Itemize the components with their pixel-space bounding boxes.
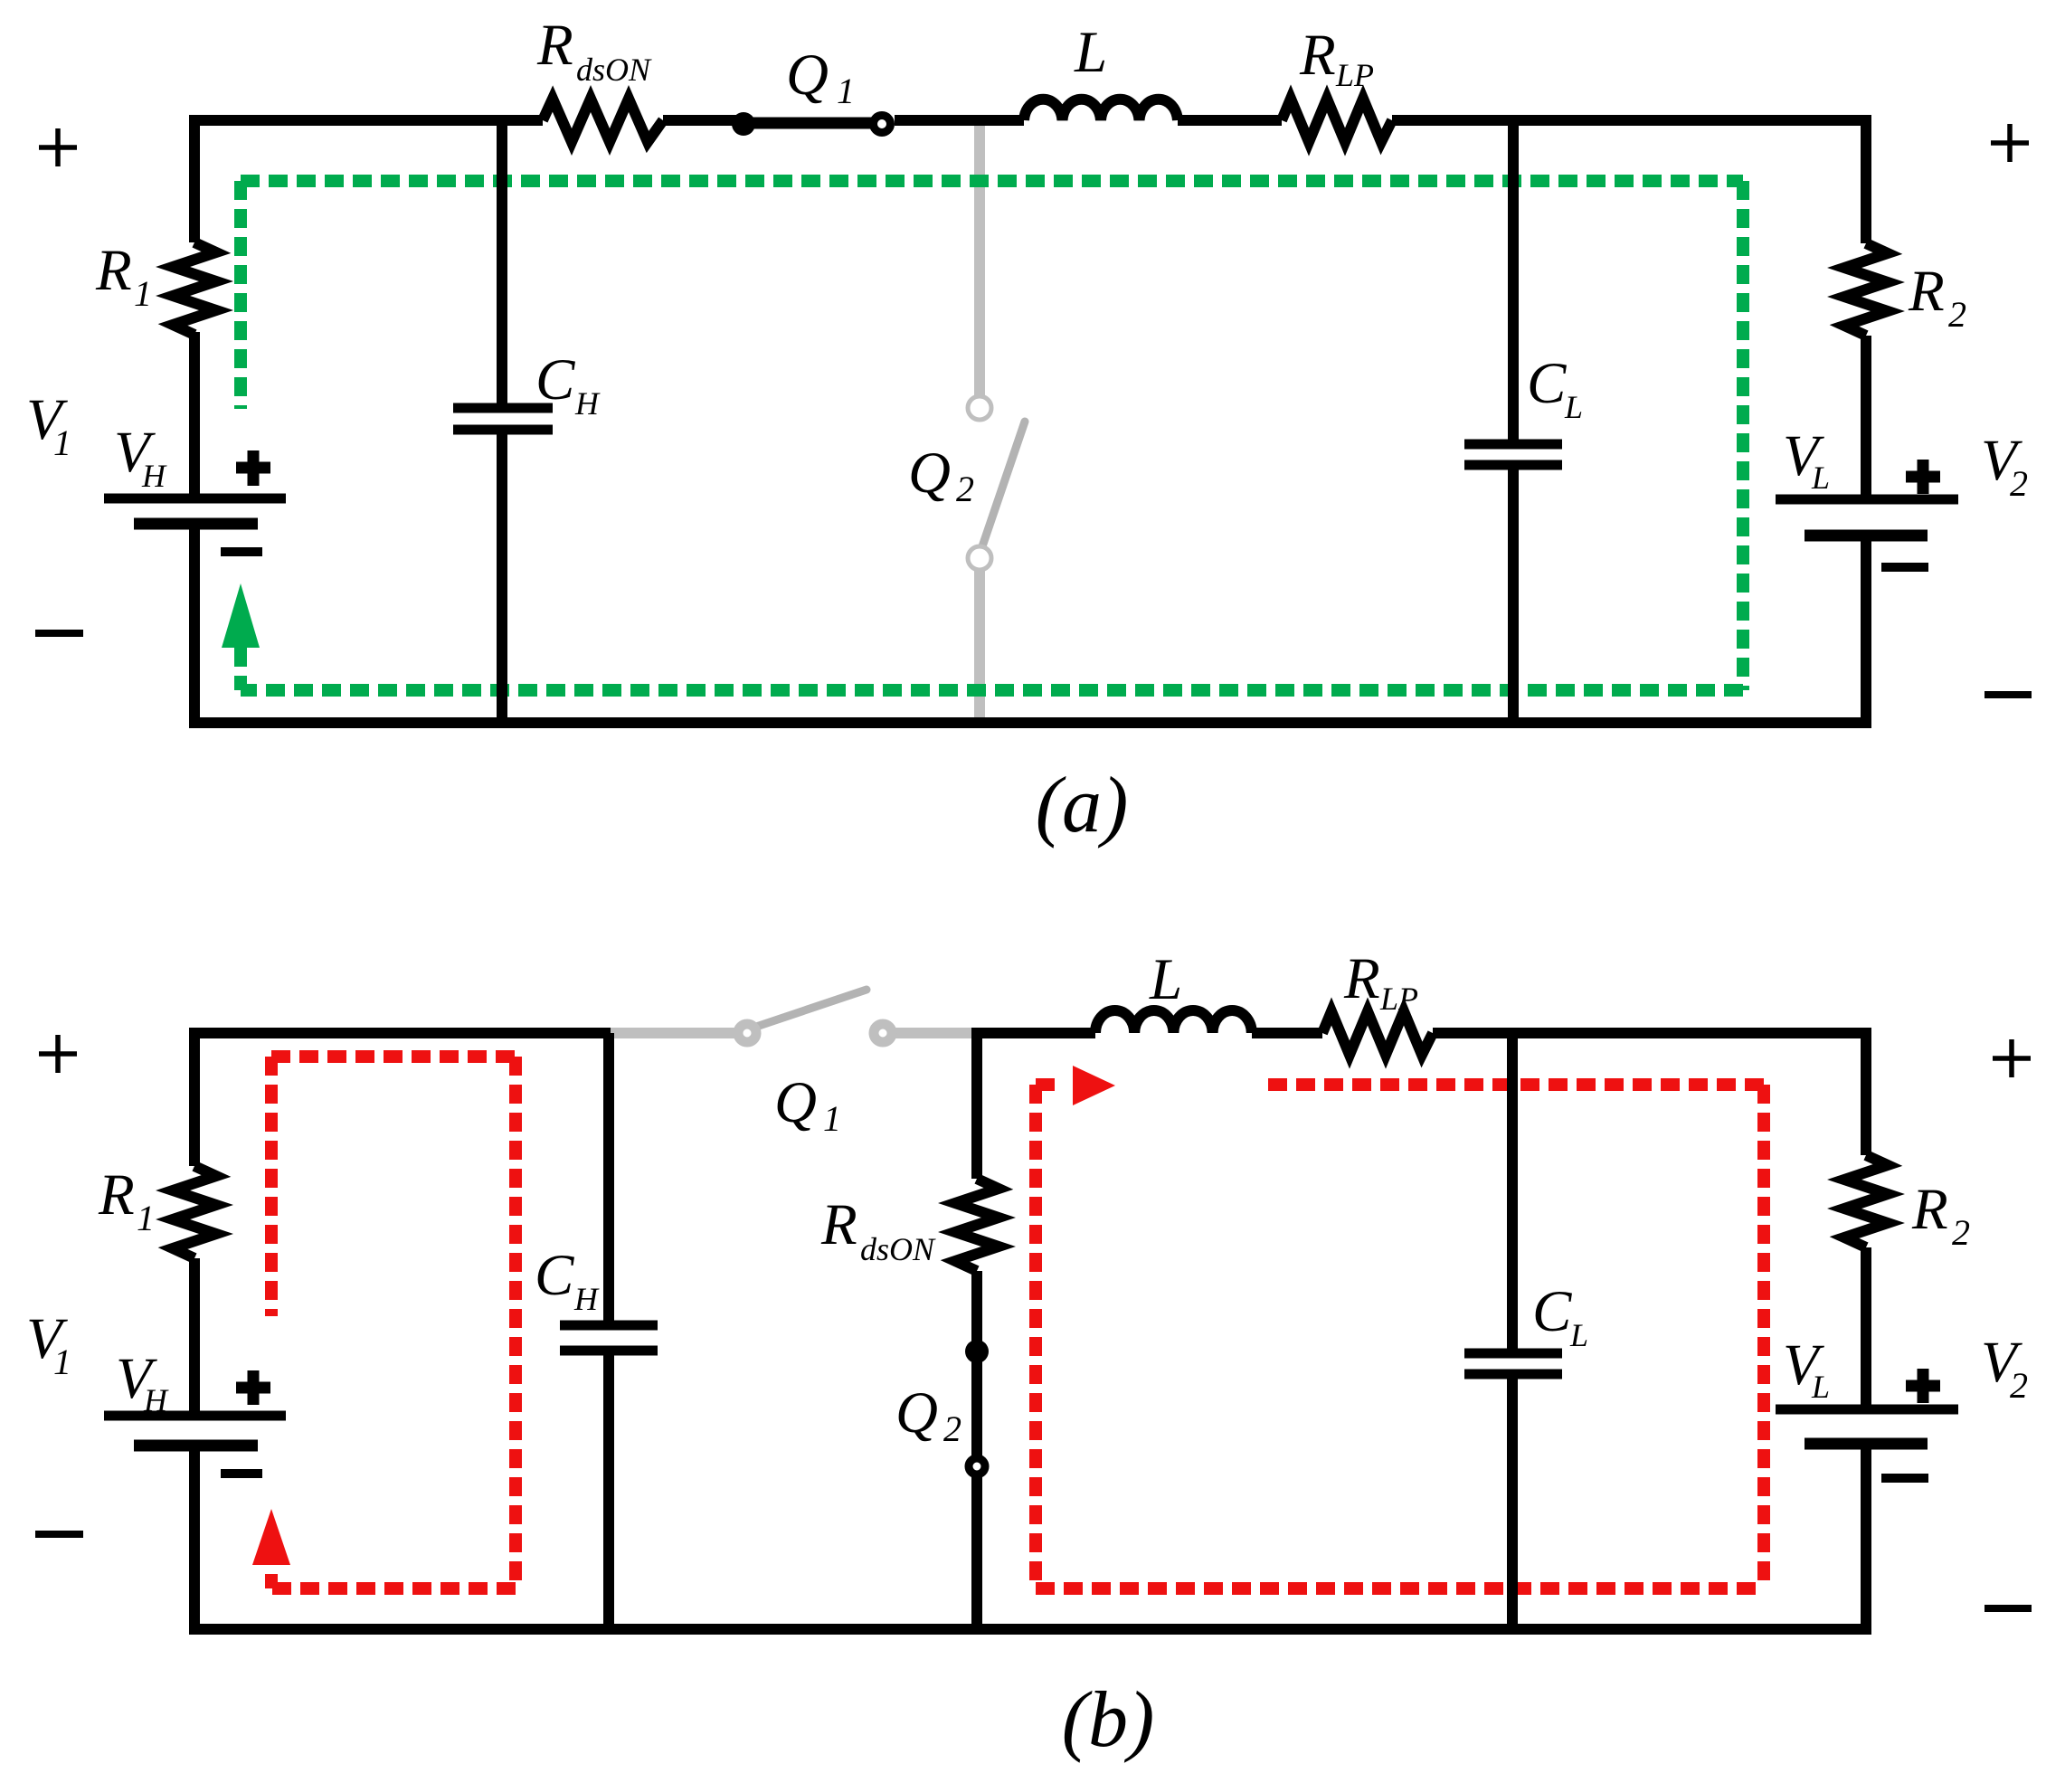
svg-text:H: H [143, 1382, 169, 1418]
svg-text:Q: Q [774, 1070, 817, 1135]
svg-text:2: 2 [1952, 1212, 1970, 1253]
svg-text:R: R [1299, 23, 1336, 88]
svg-text:dsON: dsON [860, 1231, 936, 1267]
svg-text:R: R [95, 238, 132, 303]
svg-text:R: R [1343, 946, 1380, 1011]
svg-text:LP: LP [1335, 57, 1374, 93]
svg-text:R: R [536, 13, 573, 78]
svg-text:C: C [535, 1243, 574, 1308]
svg-text:L: L [1569, 1317, 1588, 1353]
svg-text:L: L [1811, 1369, 1830, 1405]
svg-text:1: 1 [53, 1342, 71, 1382]
svg-text:L: L [1149, 947, 1182, 1012]
svg-text:R: R [1908, 259, 1945, 324]
svg-text:H: H [573, 1281, 600, 1317]
svg-text:R: R [98, 1162, 135, 1228]
svg-text:1: 1 [823, 1098, 841, 1139]
svg-text:(a): (a) [1036, 762, 1129, 849]
svg-text:2: 2 [943, 1408, 961, 1449]
svg-text:R: R [820, 1192, 857, 1257]
svg-text:1: 1 [837, 71, 855, 111]
svg-text:Q: Q [895, 1380, 938, 1446]
svg-text:(b): (b) [1062, 1676, 1155, 1764]
svg-text:H: H [574, 385, 601, 422]
svg-text:dsON: dsON [576, 52, 652, 88]
svg-text:2: 2 [1948, 294, 1966, 335]
svg-text:2: 2 [2010, 463, 2028, 504]
svg-text:Q: Q [908, 441, 951, 506]
svg-text:1: 1 [134, 273, 152, 314]
svg-text:H: H [141, 458, 167, 494]
svg-text:C: C [1532, 1279, 1572, 1344]
svg-text:R: R [1911, 1177, 1948, 1242]
svg-text:1: 1 [137, 1198, 155, 1238]
svg-text:C: C [1527, 351, 1567, 416]
svg-text:LP: LP [1379, 981, 1418, 1017]
svg-text:Q: Q [786, 43, 829, 108]
svg-text:2: 2 [2010, 1365, 2028, 1406]
svg-text:L: L [1811, 460, 1830, 496]
svg-text:L: L [1564, 389, 1583, 425]
svg-text:C: C [535, 347, 575, 412]
svg-text:L: L [1074, 20, 1107, 85]
svg-text:2: 2 [956, 469, 974, 509]
svg-text:1: 1 [53, 422, 71, 463]
